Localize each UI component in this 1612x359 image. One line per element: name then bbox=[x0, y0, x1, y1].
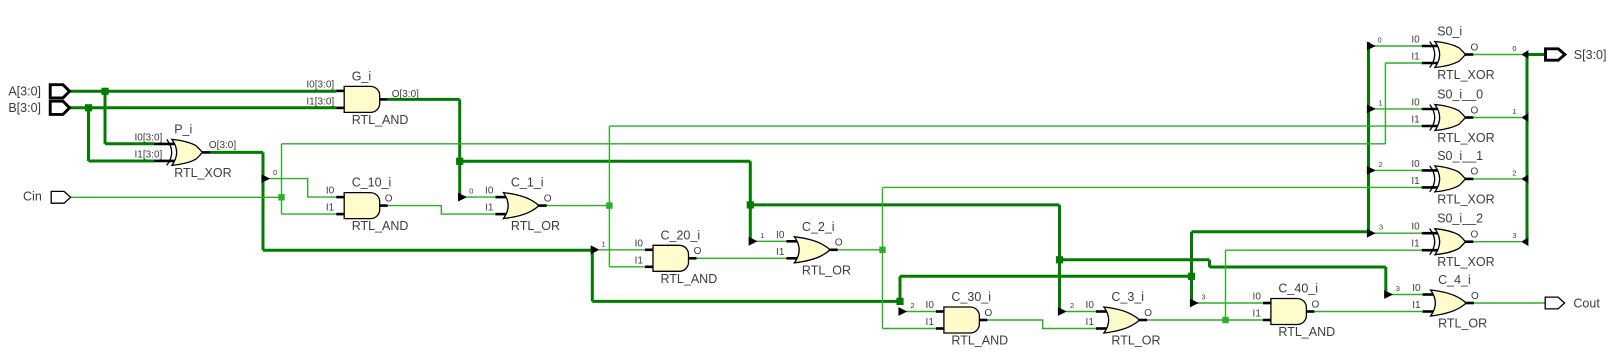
svg-text:C_20_i: C_20_i bbox=[661, 228, 701, 242]
wire P[3] tap to S0_i__2 I0 bbox=[1374, 232, 1422, 234]
svg-text:RTL_XOR: RTL_XOR bbox=[174, 166, 231, 180]
tap S bus merge bit2 bbox=[1512, 168, 1528, 183]
or-gate C_4_i bbox=[1412, 273, 1487, 331]
svg-text:I0: I0 bbox=[776, 230, 785, 241]
tap G bus tap bit1 at x750 bbox=[749, 231, 765, 246]
tap P bus tap bit2 to S0_i__1 bbox=[1367, 160, 1383, 175]
svg-text:O: O bbox=[1471, 291, 1479, 302]
svg-text:I1: I1 bbox=[926, 317, 935, 328]
svg-text:3: 3 bbox=[1512, 231, 1516, 240]
svg-text:O[3:0]: O[3:0] bbox=[209, 140, 236, 151]
xor-gate P_i bbox=[134, 122, 236, 180]
wire bus P[3:0] output of P_i bbox=[210, 42, 1368, 301]
wire C_30_i O to C_3_i I1 bbox=[987, 320, 1096, 329]
svg-text:I0: I0 bbox=[635, 238, 644, 249]
wire P[0] tap to S0_i I0 bbox=[1374, 45, 1422, 47]
tap P bus tap bit1 to S0_i__0 bbox=[1367, 98, 1383, 113]
wire S0_i__1 O to S bus bbox=[1473, 178, 1521, 180]
wire C_2_i O net (to S0_i__1 I1 and C_30_i I1) bbox=[838, 187, 1422, 328]
svg-text:RTL_OR: RTL_OR bbox=[511, 219, 560, 233]
tap P bus tap bit3 at x1191 bbox=[1190, 293, 1206, 308]
svg-text:2: 2 bbox=[1379, 160, 1383, 169]
svg-text:2: 2 bbox=[1512, 168, 1516, 177]
wire P[3] tap to C_40_i I0 bbox=[1197, 302, 1263, 304]
wire P[2] tap to S0_i__1 I0 bbox=[1374, 169, 1422, 171]
node junction Cin net bbox=[278, 194, 284, 200]
svg-text:3: 3 bbox=[1202, 293, 1206, 302]
svg-text:I1: I1 bbox=[326, 203, 335, 214]
or-gate C_2_i bbox=[776, 220, 851, 277]
input port B[3:0] bbox=[8, 101, 69, 115]
svg-text:O: O bbox=[544, 193, 552, 204]
output port Cout bbox=[1545, 296, 1600, 310]
tap S bus merge bit3 bbox=[1512, 231, 1528, 246]
or-gate C_3_i bbox=[1086, 290, 1161, 348]
svg-text:1: 1 bbox=[1512, 107, 1516, 116]
xor-gate S0_i bbox=[1411, 25, 1494, 83]
svg-text:I1: I1 bbox=[485, 203, 494, 214]
svg-text:O: O bbox=[1144, 308, 1152, 319]
svg-text:RTL_OR: RTL_OR bbox=[1111, 334, 1160, 348]
or-gate C_1_i bbox=[485, 176, 560, 234]
wire C_20_i O to C_2_i I1 bbox=[697, 257, 787, 259]
input port Cin bbox=[23, 190, 71, 204]
svg-text:0: 0 bbox=[1378, 36, 1382, 45]
node junction P bus at x1191 bbox=[1188, 273, 1195, 280]
wire G[0] tap to C_1_i I0 bbox=[466, 196, 496, 198]
tap G bus tap bit2 at x1059 bbox=[1058, 301, 1074, 316]
tap P bus tap bit1 at corner x592 bbox=[591, 239, 606, 254]
svg-text:Cout: Cout bbox=[1573, 296, 1600, 310]
svg-text:I0: I0 bbox=[1411, 98, 1420, 109]
xor-gate S0_i__1 bbox=[1411, 149, 1494, 207]
svg-text:RTL_AND: RTL_AND bbox=[352, 219, 409, 233]
svg-text:RTL_AND: RTL_AND bbox=[661, 272, 718, 286]
wire S0_i O to S bus bbox=[1473, 54, 1521, 56]
xor-gate S0_i__0 bbox=[1411, 88, 1494, 146]
svg-text:I0: I0 bbox=[926, 300, 935, 311]
svg-text:1: 1 bbox=[760, 231, 764, 240]
svg-text:0: 0 bbox=[273, 168, 277, 177]
wire Cin net bbox=[70, 63, 1422, 214]
svg-text:3: 3 bbox=[1379, 223, 1383, 232]
svg-text:C_3_i: C_3_i bbox=[1111, 290, 1144, 304]
svg-text:0: 0 bbox=[469, 187, 473, 196]
wire S0_i__2 O to S bus bbox=[1473, 241, 1521, 243]
svg-text:I0[3:0]: I0[3:0] bbox=[134, 132, 162, 143]
svg-text:3: 3 bbox=[1396, 284, 1400, 293]
node junction C_3_i output bbox=[1222, 317, 1228, 323]
svg-text:G_i: G_i bbox=[352, 69, 371, 83]
svg-text:RTL_XOR: RTL_XOR bbox=[1437, 255, 1494, 269]
svg-text:C_1_i: C_1_i bbox=[511, 176, 544, 190]
svg-text:I1[3:0]: I1[3:0] bbox=[306, 96, 334, 107]
wire C_4_i O to Cout port bbox=[1474, 302, 1545, 304]
svg-text:P_i: P_i bbox=[174, 122, 192, 136]
svg-text:I0: I0 bbox=[1253, 292, 1262, 303]
svg-text:C_2_i: C_2_i bbox=[802, 220, 835, 234]
svg-text:I1[3:0]: I1[3:0] bbox=[134, 149, 162, 160]
svg-text:RTL_XOR: RTL_XOR bbox=[1437, 192, 1494, 206]
wire P[1] tap to C_20_i I0 bbox=[599, 249, 645, 251]
svg-text:S0_i__1: S0_i__1 bbox=[1437, 149, 1483, 163]
svg-text:I1: I1 bbox=[1411, 52, 1420, 63]
svg-text:O: O bbox=[1312, 299, 1320, 310]
node junction C_2_i output bbox=[879, 247, 885, 253]
wire G[1] tap to C_2_i I0 bbox=[756, 240, 786, 242]
input port A[3:0] bbox=[8, 85, 69, 99]
node junction on A bus bbox=[101, 88, 108, 95]
svg-text:2: 2 bbox=[1070, 301, 1074, 310]
wire bus A[3:0] from port to G_i I0 bbox=[70, 91, 336, 144]
svg-text:RTL_XOR: RTL_XOR bbox=[1437, 131, 1494, 145]
wire bus S[3:0] to output port bbox=[1527, 55, 1546, 242]
svg-text:2: 2 bbox=[911, 301, 915, 310]
and-gate G_i bbox=[306, 69, 419, 127]
svg-text:C_10_i: C_10_i bbox=[352, 176, 392, 190]
svg-text:C_30_i: C_30_i bbox=[951, 290, 991, 304]
wire G[2] tap to C_3_i I0 bbox=[1066, 311, 1096, 313]
tap P bus tap bit0 to C_10_i bbox=[261, 168, 277, 183]
wire G[3] tap to C_4_i I0 bbox=[1392, 294, 1423, 296]
wire C_1_i O net (to S0_i__0 I1 and C_20_i I1) bbox=[547, 126, 1422, 267]
svg-text:S0_i: S0_i bbox=[1437, 25, 1462, 39]
svg-text:I1: I1 bbox=[776, 247, 785, 258]
svg-text:0: 0 bbox=[1512, 44, 1516, 53]
svg-text:I0: I0 bbox=[1411, 35, 1420, 46]
svg-text:I0: I0 bbox=[1086, 300, 1095, 311]
svg-text:S[3:0]: S[3:0] bbox=[1574, 48, 1607, 62]
svg-text:O: O bbox=[1471, 105, 1479, 116]
svg-text:I0: I0 bbox=[1411, 222, 1420, 233]
and-gate C_10_i bbox=[326, 176, 409, 234]
svg-text:B[3:0]: B[3:0] bbox=[8, 101, 41, 115]
svg-text:A[3:0]: A[3:0] bbox=[8, 85, 41, 99]
svg-text:Cin: Cin bbox=[23, 190, 42, 204]
svg-text:RTL_AND: RTL_AND bbox=[951, 334, 1008, 348]
svg-text:C_4_i: C_4_i bbox=[1438, 273, 1471, 287]
svg-text:O: O bbox=[385, 193, 393, 204]
svg-text:RTL_OR: RTL_OR bbox=[1438, 317, 1487, 331]
wire bus G[3:0] output of G_i bbox=[388, 99, 1386, 312]
svg-text:I0: I0 bbox=[326, 186, 335, 197]
wire C_10_i O to C_1_i I1 bbox=[388, 206, 496, 215]
svg-text:RTL_XOR: RTL_XOR bbox=[1437, 68, 1494, 82]
wire C_3_i O net (to S0_i__2 I1 and C_40_i I1) bbox=[1147, 250, 1422, 320]
tap G bus tap bit3 at x1385 bbox=[1384, 284, 1400, 299]
svg-text:I0: I0 bbox=[1412, 283, 1421, 294]
node junction on B bus bbox=[85, 104, 92, 111]
wire S0_i__0 O to S bus bbox=[1473, 117, 1521, 119]
svg-text:RTL_OR: RTL_OR bbox=[802, 263, 851, 277]
svg-text:RTL_AND: RTL_AND bbox=[1278, 325, 1335, 339]
wire bus B[3:0] from port to G_i I1 and P_i I1 bbox=[70, 108, 336, 161]
svg-text:I1: I1 bbox=[1253, 309, 1262, 320]
and-gate C_20_i bbox=[635, 228, 718, 285]
svg-text:S0_i__2: S0_i__2 bbox=[1437, 212, 1483, 226]
node junction P bus at x900 bbox=[896, 298, 903, 305]
svg-text:I1: I1 bbox=[1411, 239, 1420, 250]
and-gate C_40_i bbox=[1253, 282, 1336, 340]
node junction G bus at x750 bbox=[747, 201, 754, 208]
svg-text:O: O bbox=[985, 308, 993, 319]
wire P[2] tap to C_30_i I0 bbox=[906, 311, 936, 313]
svg-text:C_40_i: C_40_i bbox=[1278, 282, 1318, 296]
svg-text:I1: I1 bbox=[1412, 300, 1421, 311]
tap P bus tap bit2 at x900 bbox=[898, 301, 914, 316]
svg-text:I0: I0 bbox=[1411, 159, 1420, 170]
tap S bus merge bit1 bbox=[1512, 107, 1528, 122]
wire P[0] tap to C_10_i I0 bbox=[270, 179, 337, 198]
svg-text:1: 1 bbox=[602, 239, 606, 248]
svg-text:I1: I1 bbox=[1411, 115, 1420, 126]
svg-text:I0: I0 bbox=[485, 186, 494, 197]
svg-text:S0_i__0: S0_i__0 bbox=[1437, 88, 1483, 102]
svg-text:O: O bbox=[1471, 230, 1479, 241]
svg-text:I0[3:0]: I0[3:0] bbox=[306, 79, 334, 90]
wire P[1] tap to S0_i__0 I0 bbox=[1374, 108, 1422, 110]
svg-text:O[3:0]: O[3:0] bbox=[392, 89, 419, 100]
svg-text:O: O bbox=[1471, 167, 1479, 178]
svg-text:1: 1 bbox=[1379, 98, 1383, 107]
node junction G bus at x1059 bbox=[1056, 256, 1063, 263]
tap P bus tap bit0 to S0_i bbox=[1367, 36, 1382, 51]
xor-gate S0_i__2 bbox=[1411, 212, 1494, 270]
wire C_40_i O to C_4_i I1 bbox=[1314, 311, 1422, 313]
node junction C_1_i output bbox=[606, 202, 612, 208]
svg-text:O: O bbox=[1471, 42, 1479, 53]
output port S[3:0] bbox=[1546, 48, 1607, 62]
svg-text:RTL_AND: RTL_AND bbox=[352, 113, 409, 127]
and-gate C_30_i bbox=[926, 290, 1009, 348]
svg-text:I1: I1 bbox=[635, 255, 644, 266]
node junction G bus at x459 bbox=[456, 158, 463, 165]
tap P bus tap bit3 to S0_i__2 bbox=[1367, 223, 1383, 238]
svg-text:O: O bbox=[694, 246, 702, 257]
tap S bus merge bit0 bbox=[1512, 44, 1528, 59]
svg-text:O: O bbox=[835, 238, 843, 249]
svg-text:I1: I1 bbox=[1411, 176, 1420, 187]
svg-text:I1: I1 bbox=[1086, 317, 1095, 328]
tap G bus tap bit0 at x459 bbox=[458, 187, 473, 202]
